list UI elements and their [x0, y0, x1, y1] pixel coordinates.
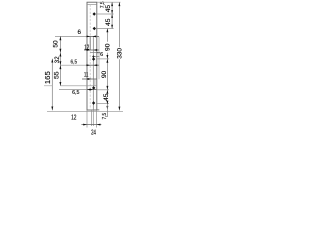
- svg-text:45: 45: [105, 18, 112, 26]
- faceplate outline: [87, 2, 97, 110]
- faceplate top inner line: [87, 4, 97, 6]
- svg-text:12: 12: [84, 45, 89, 52]
- light line y 86: [60, 85, 96, 87]
- ext line y 86 left stub: [44, 85, 52, 87]
- small diamond marker: [92, 55, 95, 58]
- svg-text:50: 50: [52, 40, 59, 48]
- dim 6,5 line: [60, 64, 87, 66]
- left chain 50/32/55: [59, 36, 61, 85]
- dim 165: [51, 59, 53, 111]
- svg-text:45: 45: [103, 93, 110, 101]
- svg-text:11: 11: [84, 72, 89, 79]
- svg-text:6: 6: [100, 52, 103, 58]
- leader stub for label 6: [97, 52, 100, 54]
- svg-text:45: 45: [105, 4, 112, 12]
- faceplate inner fold line (dashed): [89, 5, 91, 111]
- svg-text:90: 90: [104, 43, 111, 51]
- short line at y 52.6: [90, 52, 97, 54]
- svg-text:165: 165: [45, 71, 52, 84]
- svg-text:24: 24: [91, 130, 96, 137]
- svg-text:12: 12: [71, 114, 76, 121]
- cutout side line: [94, 79, 96, 86]
- svg-text:6,5: 6,5: [71, 60, 78, 66]
- dim 6 arrows: [87, 35, 91, 37]
- dim 6,5 lower line: [59, 89, 87, 91]
- cutout left edge solid: [89, 36, 91, 50]
- extension vertical x99: [98, 37, 100, 80]
- right extension lines: [96, 2, 121, 103]
- faceplate inner edge line: [92, 36, 94, 110]
- svg-text:55: 55: [54, 71, 61, 79]
- svg-text:6: 6: [77, 29, 81, 36]
- cross line at cutout top: [55, 35, 87, 37]
- bottom extension line: [47, 110, 123, 112]
- dim 330: [118, 2, 120, 47]
- svg-text:330: 330: [116, 48, 123, 59]
- plate bottom edge stub: [97, 109, 100, 111]
- bottom width dim 24: [87, 110, 97, 128]
- cross line dim 12: [84, 49, 99, 51]
- svg-text:6,5: 6,5: [72, 90, 79, 96]
- dim 11 line: [82, 78, 97, 80]
- svg-text:7,5: 7,5: [102, 113, 108, 120]
- right chain 90/90/45: [106, 29, 108, 42]
- right chain 45/45: [111, 2, 113, 28]
- screw hole diamonds: [92, 12, 96, 104]
- svg-text:90: 90: [101, 70, 108, 78]
- line y 56.4: [93, 55, 99, 57]
- svg-text:32: 32: [54, 56, 61, 63]
